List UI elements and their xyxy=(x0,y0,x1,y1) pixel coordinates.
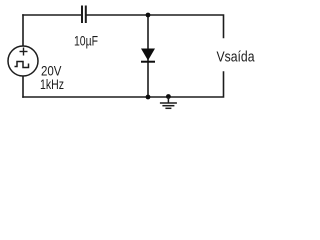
svg-text:Vsaída: Vsaída xyxy=(217,48,256,65)
source V1 plus sign xyxy=(20,48,28,56)
node junction dot top xyxy=(146,13,151,18)
wire top left horizontal from source to capacitor xyxy=(23,14,81,16)
svg-text:1kHz: 1kHz xyxy=(40,76,64,92)
source V1 circle xyxy=(8,46,38,76)
wire top right horizontal from capacitor to output corner xyxy=(86,15,224,38)
node junction dot ground xyxy=(166,94,171,99)
capacitor C1 plates xyxy=(82,6,86,24)
source V1 square wave symbol xyxy=(15,62,29,68)
wire left vertical source top xyxy=(22,15,24,47)
ground symbol xyxy=(160,97,177,108)
svg-text:10µF: 10µF xyxy=(74,33,98,49)
wire bottom horizontal xyxy=(23,72,224,97)
wire left vertical source bottom xyxy=(22,76,24,97)
diode D1 xyxy=(141,49,155,62)
node junction dot bottom xyxy=(146,95,151,100)
wire diode branch vertical xyxy=(147,15,149,97)
